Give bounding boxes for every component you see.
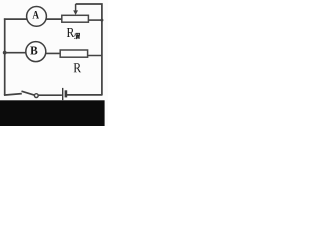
wire: B row middle segment	[36, 52, 74, 54]
black scan strip	[0, 100, 105, 126]
wire: left vertical bus	[4, 18, 6, 95]
wire: switch to battery	[38, 94, 62, 96]
label R滑	[67, 28, 80, 39]
battery long plate	[62, 88, 64, 100]
node: rheostat-right bus junction	[100, 19, 103, 22]
battery short plate	[65, 90, 68, 97]
wire: bottom left segment to switch	[4, 94, 22, 96]
wire: top row from left bus to rheostat	[4, 18, 62, 20]
wire: B row left segment	[4, 52, 36, 54]
switch pivot	[34, 94, 38, 98]
meter B	[26, 42, 46, 62]
background	[0, 0, 108, 126]
wire: resistor R right terminal to right bus	[74, 55, 103, 57]
wire: rheostat right terminal to right bus	[88, 19, 103, 21]
node: left bus B-row junction	[3, 51, 7, 55]
ammeter A	[27, 7, 47, 27]
rheostat slider arrow	[73, 4, 78, 15]
label R	[74, 63, 81, 72]
wire: slider top wire and right vertical bus	[76, 4, 102, 95]
resistor R body	[60, 50, 87, 57]
wire: battery to right bus	[67, 94, 103, 96]
switch lever	[22, 91, 35, 95]
rheostat R滑 body	[62, 15, 89, 22]
